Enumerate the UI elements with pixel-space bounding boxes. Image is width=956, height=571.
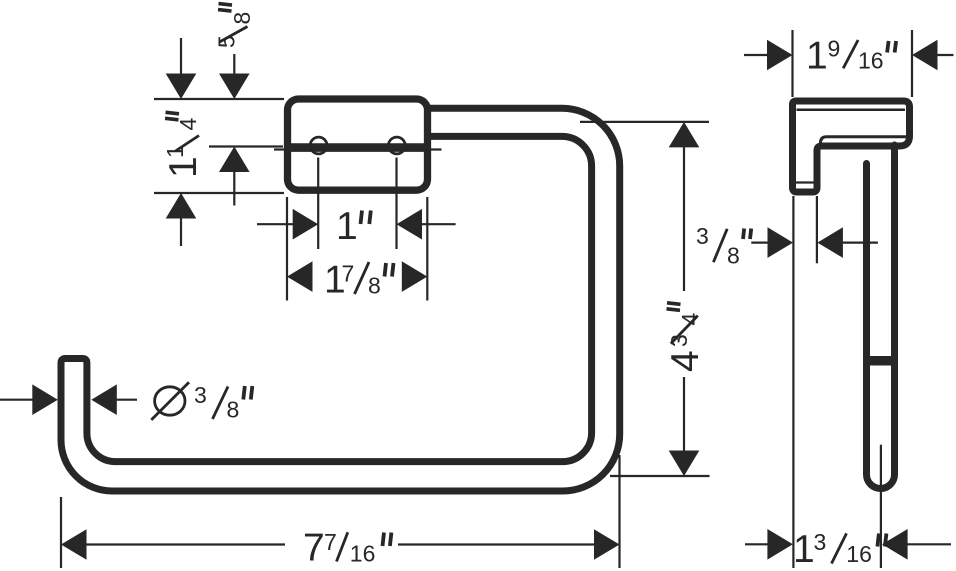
- svg-text:3: 3: [696, 223, 709, 249]
- svg-text:1: 1: [793, 528, 815, 571]
- svg-text:8: 8: [227, 397, 240, 423]
- svg-text:8: 8: [727, 243, 740, 269]
- svg-text:4: 4: [677, 313, 703, 326]
- svg-text:9: 9: [828, 36, 841, 62]
- svg-text:3: 3: [814, 529, 827, 555]
- svg-text:1: 1: [806, 34, 828, 77]
- svg-text:1: 1: [336, 205, 358, 248]
- svg-text:16: 16: [846, 541, 872, 567]
- svg-text:16: 16: [858, 47, 884, 73]
- svg-text:16: 16: [350, 541, 376, 567]
- svg-text:4: 4: [175, 118, 201, 131]
- svg-text:7: 7: [342, 261, 355, 287]
- svg-text:7: 7: [324, 529, 337, 555]
- svg-text:4: 4: [664, 350, 707, 372]
- svg-text:8: 8: [368, 273, 381, 299]
- svg-text:3: 3: [194, 382, 207, 408]
- svg-text:8: 8: [229, 12, 255, 25]
- svg-text:1: 1: [162, 156, 205, 178]
- svg-text:1: 1: [162, 145, 188, 158]
- svg-text:7: 7: [303, 527, 325, 570]
